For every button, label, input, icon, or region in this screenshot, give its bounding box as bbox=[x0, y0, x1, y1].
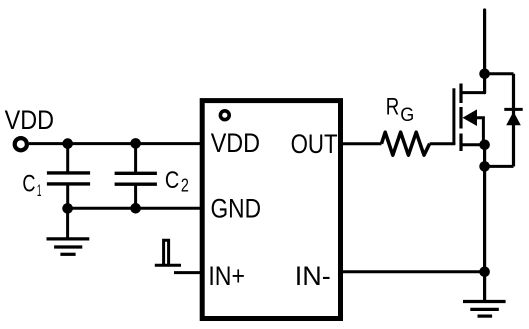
wire pulse to IC IN+ pin bbox=[174, 271, 202, 274]
wire resistor to gate bbox=[430, 142, 456, 145]
svg-text:VDD: VDD bbox=[5, 105, 54, 135]
junction dot C1 bottom bbox=[62, 203, 73, 214]
junction dot C2 bottom bbox=[130, 203, 141, 214]
junction dot source node bbox=[479, 140, 490, 151]
resistor RG bbox=[382, 132, 430, 155]
VDD terminal circle bbox=[15, 138, 27, 150]
svg-text:1: 1 bbox=[37, 181, 42, 200]
wire C1 bottom lead bbox=[66, 184, 69, 208]
junction dot C2 top bbox=[130, 138, 141, 149]
wire GND bus to IC GND pin bbox=[68, 207, 202, 210]
transistor Q1 body arrow bbox=[463, 109, 478, 126]
wire C2 bottom lead bbox=[134, 184, 137, 208]
wire source down bbox=[483, 145, 486, 302]
transistor Q1 source tap bbox=[461, 143, 485, 146]
ground (left) bbox=[47, 239, 90, 254]
transistor Q1 body link bbox=[476, 118, 483, 145]
wire OUT pin to resistor bbox=[340, 142, 382, 145]
wire C2 top lead bbox=[134, 143, 137, 173]
wire diode branch vertical bbox=[512, 74, 515, 167]
wire VDD terminal to IC VDD pin bbox=[29, 142, 202, 145]
transistor Q1 gate bar bbox=[452, 88, 455, 143]
junction dot IN- node bbox=[479, 267, 490, 278]
wire drain up bbox=[483, 10, 486, 93]
junction dot C1 top bbox=[62, 138, 73, 149]
svg-text:IN+: IN+ bbox=[208, 261, 245, 291]
pin 1 marker circle bbox=[220, 111, 229, 120]
svg-text:C: C bbox=[22, 171, 35, 198]
transistor Q1 channel segments bbox=[459, 84, 462, 152]
capacitor C2 bbox=[115, 173, 157, 184]
wire diode branch bottom bbox=[485, 165, 514, 168]
svg-text:G: G bbox=[400, 105, 414, 126]
wire C1 top lead bbox=[66, 144, 69, 173]
svg-text:R: R bbox=[386, 94, 400, 121]
op-amp U1 package body bbox=[202, 101, 340, 319]
svg-text:GND: GND bbox=[211, 194, 262, 224]
ground (right) bbox=[463, 302, 506, 317]
capacitor C1 bbox=[47, 173, 90, 184]
transistor Q1 drain tap bbox=[461, 91, 485, 94]
wire IC IN- pin to source node bbox=[340, 270, 485, 273]
svg-text:C: C bbox=[165, 167, 179, 194]
wire diode branch top bbox=[485, 72, 514, 75]
label C2 bbox=[165, 167, 189, 196]
svg-text:2: 2 bbox=[181, 176, 189, 196]
svg-text:VDD: VDD bbox=[211, 128, 260, 158]
label RG bbox=[386, 94, 414, 126]
svg-text:OUT: OUT bbox=[291, 129, 338, 159]
svg-text:IN-: IN- bbox=[295, 261, 331, 291]
label C1 bbox=[22, 171, 41, 201]
diode cathode bar bbox=[504, 108, 522, 111]
junction dot drain branch bbox=[479, 69, 490, 80]
wire ground stem left bbox=[66, 208, 69, 239]
junction dot diode return bbox=[479, 161, 490, 172]
diode anode triangle bbox=[506, 112, 521, 126]
pulse input icon bbox=[155, 240, 181, 265]
